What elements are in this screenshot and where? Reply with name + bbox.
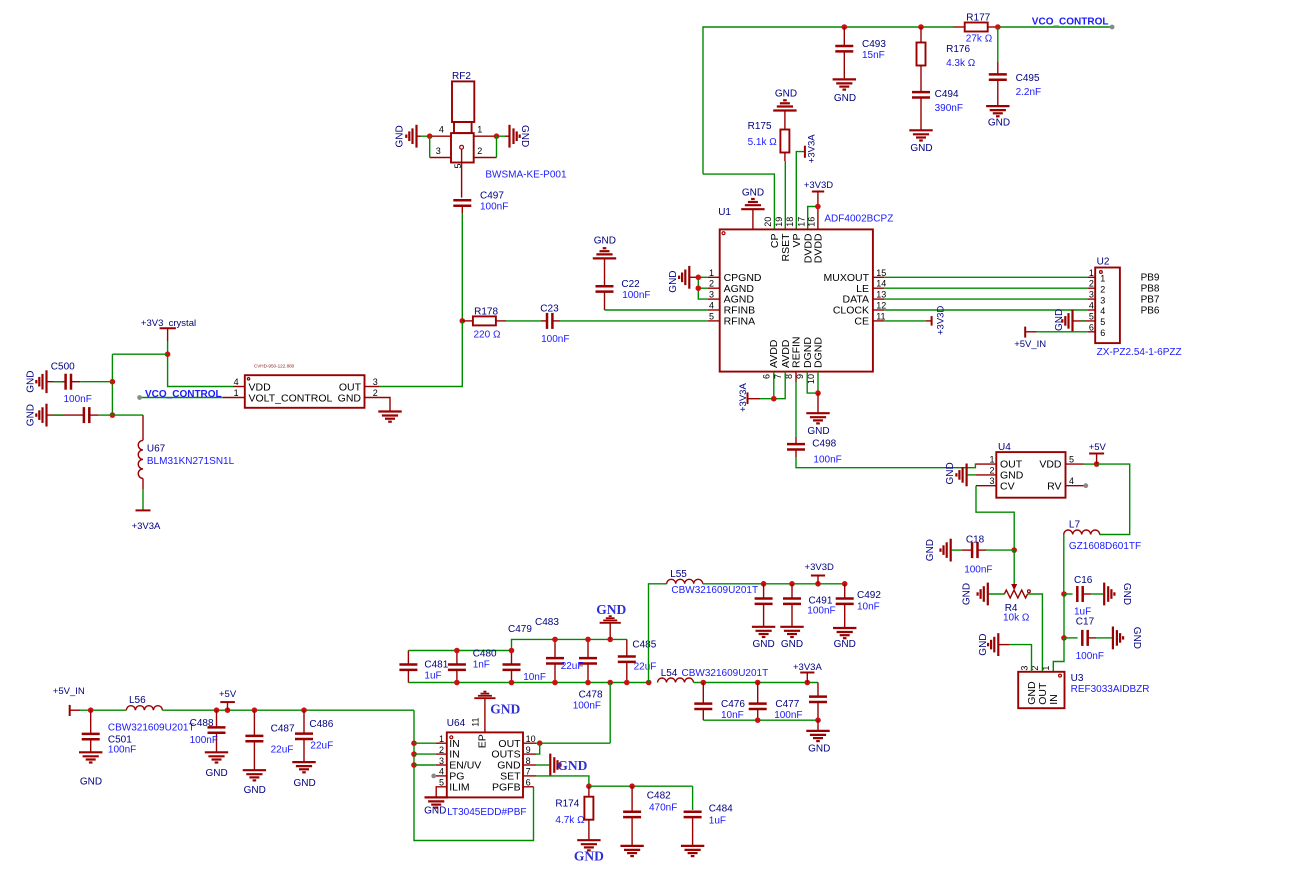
svg-text:C480: C480 (473, 649, 497, 660)
svg-text:6: 6 (761, 374, 771, 379)
svg-text:10nF: 10nF (721, 710, 744, 721)
svg-text:3: 3 (373, 377, 378, 387)
svg-text:R178: R178 (474, 306, 498, 317)
svg-text:ZX-PZ2.54-1-6PZZ: ZX-PZ2.54-1-6PZZ (1097, 347, 1182, 358)
svg-text:GND: GND (596, 602, 626, 617)
svg-text:DGND: DGND (813, 337, 825, 368)
svg-text:GND: GND (26, 404, 37, 426)
svg-text:14: 14 (876, 279, 886, 289)
svg-text:CE: CE (854, 316, 869, 328)
svg-text:22uF: 22uF (310, 741, 333, 752)
svg-text:GND: GND (834, 93, 856, 104)
svg-text:10nF: 10nF (857, 601, 880, 612)
svg-text:+5V: +5V (219, 689, 237, 700)
svg-text:1: 1 (1041, 666, 1051, 671)
svg-text:+3V3A: +3V3A (807, 134, 818, 163)
svg-text:C23: C23 (540, 303, 559, 314)
svg-text:2: 2 (989, 465, 994, 475)
svg-text:GND: GND (668, 270, 679, 292)
svg-text:+3V3A: +3V3A (132, 521, 161, 532)
svg-text:3: 3 (709, 290, 714, 300)
svg-text:3: 3 (1100, 295, 1105, 305)
svg-text:3: 3 (1019, 666, 1029, 671)
svg-text:CVHD-950-122.880: CVHD-950-122.880 (254, 364, 295, 369)
svg-text:100nF: 100nF (1076, 651, 1104, 662)
svg-text:GND: GND (807, 426, 829, 437)
svg-text:GND: GND (519, 125, 530, 147)
svg-text:3: 3 (436, 146, 441, 156)
svg-text:C497: C497 (480, 190, 504, 201)
svg-text:4: 4 (1069, 476, 1074, 486)
svg-text:R176: R176 (946, 44, 970, 55)
svg-text:1nF: 1nF (473, 659, 490, 670)
svg-text:4: 4 (1089, 301, 1094, 311)
svg-text:R174: R174 (555, 798, 579, 809)
svg-text:C478: C478 (579, 690, 603, 701)
svg-text:PB8: PB8 (1141, 284, 1160, 295)
svg-text:GND: GND (1131, 627, 1142, 649)
svg-text:+5V: +5V (1089, 442, 1107, 453)
svg-text:R175: R175 (748, 121, 772, 132)
svg-text:6: 6 (1100, 328, 1105, 338)
svg-text:2: 2 (439, 745, 444, 755)
svg-text:100nF: 100nF (108, 745, 136, 756)
svg-text:GND: GND (925, 539, 936, 561)
svg-text:C476: C476 (721, 699, 745, 710)
svg-text:CV: CV (1000, 480, 1015, 492)
svg-text:VDD: VDD (1039, 459, 1062, 471)
svg-text:4: 4 (1100, 306, 1105, 316)
svg-text:C22: C22 (621, 279, 640, 290)
svg-text:3: 3 (439, 756, 444, 766)
svg-text:390nF: 390nF (935, 103, 963, 114)
svg-text:GND: GND (244, 785, 266, 796)
svg-text:11: 11 (470, 717, 480, 726)
svg-text:GND: GND (834, 639, 856, 650)
svg-text:2: 2 (1089, 279, 1094, 289)
svg-text:C495: C495 (1016, 73, 1040, 84)
svg-text:GND: GND (574, 849, 604, 864)
svg-text:6: 6 (1089, 322, 1094, 332)
svg-text:22uF: 22uF (271, 745, 294, 756)
svg-text:PB6: PB6 (1141, 305, 1160, 316)
svg-text:C498: C498 (812, 438, 836, 449)
svg-text:ILIM: ILIM (449, 781, 469, 793)
svg-text:4.3k Ω: 4.3k Ω (946, 58, 976, 69)
svg-text:10k Ω: 10k Ω (1003, 613, 1030, 624)
svg-text:2.2nF: 2.2nF (1016, 87, 1042, 98)
svg-text:1: 1 (1100, 274, 1105, 284)
svg-text:11: 11 (876, 311, 885, 321)
svg-text:C17: C17 (1076, 617, 1095, 628)
svg-text:C493: C493 (862, 39, 886, 50)
svg-text:5.1k Ω: 5.1k Ω (748, 137, 778, 148)
svg-text:100nF: 100nF (774, 710, 802, 721)
svg-text:GND: GND (752, 639, 774, 650)
svg-text:4: 4 (709, 301, 714, 311)
svg-text:100nF: 100nF (807, 606, 835, 617)
svg-text:GND: GND (978, 633, 989, 655)
svg-text:CBW321609U201T: CBW321609U201T (682, 668, 769, 679)
svg-text:VDD: VDD (249, 381, 272, 393)
svg-text:L7: L7 (1069, 520, 1081, 531)
svg-text:U3: U3 (1071, 673, 1084, 684)
svg-text:GND: GND (205, 768, 227, 779)
svg-text:RV: RV (1047, 480, 1061, 492)
svg-text:REF3033AIDBZR: REF3033AIDBZR (1071, 684, 1150, 695)
svg-text:22uF: 22uF (561, 661, 584, 672)
svg-text:AVDD: AVDD (768, 339, 780, 368)
svg-text:C484: C484 (709, 804, 733, 815)
svg-text:100nF: 100nF (813, 455, 841, 466)
svg-text:5: 5 (1069, 455, 1074, 465)
svg-text:GND: GND (945, 462, 956, 484)
svg-text:ADF4002BCPZ: ADF4002BCPZ (824, 214, 893, 225)
svg-text:C483: C483 (535, 617, 559, 628)
svg-text:+5V_IN: +5V_IN (1014, 339, 1046, 350)
svg-text:2: 2 (1100, 284, 1105, 294)
svg-text:13: 13 (876, 290, 886, 300)
svg-text:U4: U4 (998, 442, 1011, 453)
svg-text:C18: C18 (966, 534, 985, 545)
svg-text:REFIN: REFIN (791, 337, 803, 369)
svg-text:12: 12 (876, 301, 886, 311)
svg-text:EP: EP (477, 734, 489, 748)
svg-text:GND: GND (490, 702, 520, 717)
svg-text:L54: L54 (661, 668, 678, 679)
svg-text:+3V3D: +3V3D (936, 306, 947, 335)
svg-text:100nF: 100nF (964, 565, 992, 576)
svg-text:10nF: 10nF (523, 672, 546, 683)
svg-text:C487: C487 (271, 723, 295, 734)
svg-text:470nF: 470nF (649, 803, 677, 814)
svg-text:U2: U2 (1097, 257, 1110, 268)
svg-text:GND: GND (293, 778, 315, 789)
svg-text:100nF: 100nF (480, 202, 508, 213)
svg-text:15: 15 (876, 268, 886, 278)
svg-text:GND: GND (394, 125, 405, 147)
svg-text:1: 1 (477, 125, 482, 135)
svg-text:GND: GND (1121, 583, 1132, 605)
svg-text:VOLT_CONTROL: VOLT_CONTROL (249, 393, 333, 405)
svg-text:1uF: 1uF (424, 671, 441, 682)
svg-text:5: 5 (1100, 317, 1105, 327)
svg-text:100nF: 100nF (190, 735, 218, 746)
svg-text:GND: GND (557, 758, 587, 773)
svg-text:19: 19 (774, 217, 784, 227)
svg-text:3: 3 (1089, 290, 1094, 300)
svg-text:GND: GND (808, 743, 830, 754)
svg-text:2: 2 (709, 279, 714, 289)
svg-text:C479: C479 (508, 624, 532, 635)
svg-text:GZ1608D601TF: GZ1608D601TF (1069, 541, 1141, 552)
svg-text:1: 1 (989, 455, 994, 465)
svg-text:U64: U64 (447, 718, 466, 729)
svg-text:GND: GND (26, 371, 37, 393)
svg-text:5: 5 (709, 311, 714, 321)
svg-text:C481: C481 (424, 660, 448, 671)
svg-text:C16: C16 (1074, 575, 1093, 586)
svg-text:GND: GND (910, 143, 932, 154)
svg-text:GND: GND (742, 188, 764, 199)
svg-text:L56: L56 (129, 695, 146, 706)
svg-text:1uF: 1uF (1074, 606, 1091, 617)
svg-text:BWSMA-KE-P001: BWSMA-KE-P001 (485, 170, 567, 181)
svg-text:1: 1 (234, 388, 239, 398)
svg-text:GND: GND (988, 118, 1010, 129)
svg-text:2: 2 (477, 146, 482, 156)
svg-text:VCO_CONTROL: VCO_CONTROL (1032, 16, 1109, 27)
svg-text:2: 2 (373, 388, 378, 398)
svg-text:1: 1 (439, 734, 444, 744)
svg-text:5: 5 (453, 164, 463, 169)
svg-text:IN: IN (1048, 694, 1060, 705)
svg-text:VCO_CONTROL: VCO_CONTROL (145, 389, 222, 400)
svg-text:R177: R177 (966, 12, 990, 23)
svg-text:RFINA: RFINA (724, 316, 756, 328)
svg-text:18: 18 (785, 217, 795, 227)
svg-text:CBW321609U201T: CBW321609U201T (108, 723, 195, 734)
svg-text:+3V3D: +3V3D (804, 180, 833, 191)
svg-text:U67: U67 (147, 444, 166, 455)
svg-text:+3V3D: +3V3D (805, 562, 834, 573)
svg-text:VP: VP (791, 234, 803, 248)
svg-text:1: 1 (709, 268, 714, 278)
svg-text:C501: C501 (108, 734, 132, 745)
svg-text:22uF: 22uF (634, 662, 657, 673)
svg-text:GND: GND (781, 639, 803, 650)
svg-text:4.7k Ω: 4.7k Ω (555, 815, 585, 826)
svg-text:GND: GND (424, 806, 446, 817)
svg-text:220 Ω: 220 Ω (474, 329, 501, 340)
svg-text:DVDD: DVDD (813, 233, 825, 263)
svg-text:C486: C486 (309, 719, 333, 730)
svg-text:15nF: 15nF (862, 50, 885, 61)
svg-text:5: 5 (1089, 311, 1094, 321)
svg-text:4: 4 (234, 377, 239, 387)
svg-text:17: 17 (796, 217, 806, 227)
svg-text:C485: C485 (632, 640, 656, 651)
svg-text:GND: GND (80, 777, 102, 788)
svg-text:100nF: 100nF (64, 394, 92, 405)
svg-text:C500: C500 (51, 361, 75, 372)
svg-text:BLM31KN271SN1L: BLM31KN271SN1L (147, 456, 235, 467)
svg-text:20: 20 (763, 217, 773, 227)
svg-text:OUT: OUT (339, 381, 362, 393)
svg-text:100nF: 100nF (541, 334, 569, 345)
svg-text:3: 3 (989, 476, 994, 486)
svg-text:GND: GND (775, 88, 797, 99)
svg-text:100nF: 100nF (573, 701, 601, 712)
svg-text:CBW321609U201T: CBW321609U201T (671, 585, 758, 596)
svg-text:1uF: 1uF (709, 816, 726, 827)
svg-text:C494: C494 (935, 89, 959, 100)
svg-text:C488: C488 (190, 718, 214, 729)
svg-text:16: 16 (807, 217, 817, 227)
svg-text:PB9: PB9 (1141, 273, 1160, 284)
svg-text:C492: C492 (857, 590, 881, 601)
svg-text:+3V3A: +3V3A (793, 662, 822, 673)
svg-text:GND: GND (338, 393, 362, 405)
svg-text:4: 4 (439, 125, 444, 135)
svg-text:+5V_IN: +5V_IN (53, 686, 85, 697)
svg-text:GND: GND (594, 236, 616, 247)
svg-text:RF2: RF2 (452, 71, 471, 82)
svg-text:GND: GND (1054, 309, 1065, 331)
svg-text:6: 6 (526, 778, 531, 788)
svg-text:LT3045EDD#PBF: LT3045EDD#PBF (447, 807, 526, 818)
svg-text:C477: C477 (775, 699, 799, 710)
svg-text:PB7: PB7 (1141, 294, 1160, 305)
svg-text:U1: U1 (718, 207, 731, 218)
svg-text:L55: L55 (670, 569, 687, 580)
svg-text:100nF: 100nF (622, 290, 650, 301)
svg-text:PGFB: PGFB (492, 781, 521, 793)
svg-text:GND: GND (962, 583, 973, 605)
svg-text:1: 1 (1089, 268, 1094, 278)
svg-text:C482: C482 (647, 790, 671, 801)
